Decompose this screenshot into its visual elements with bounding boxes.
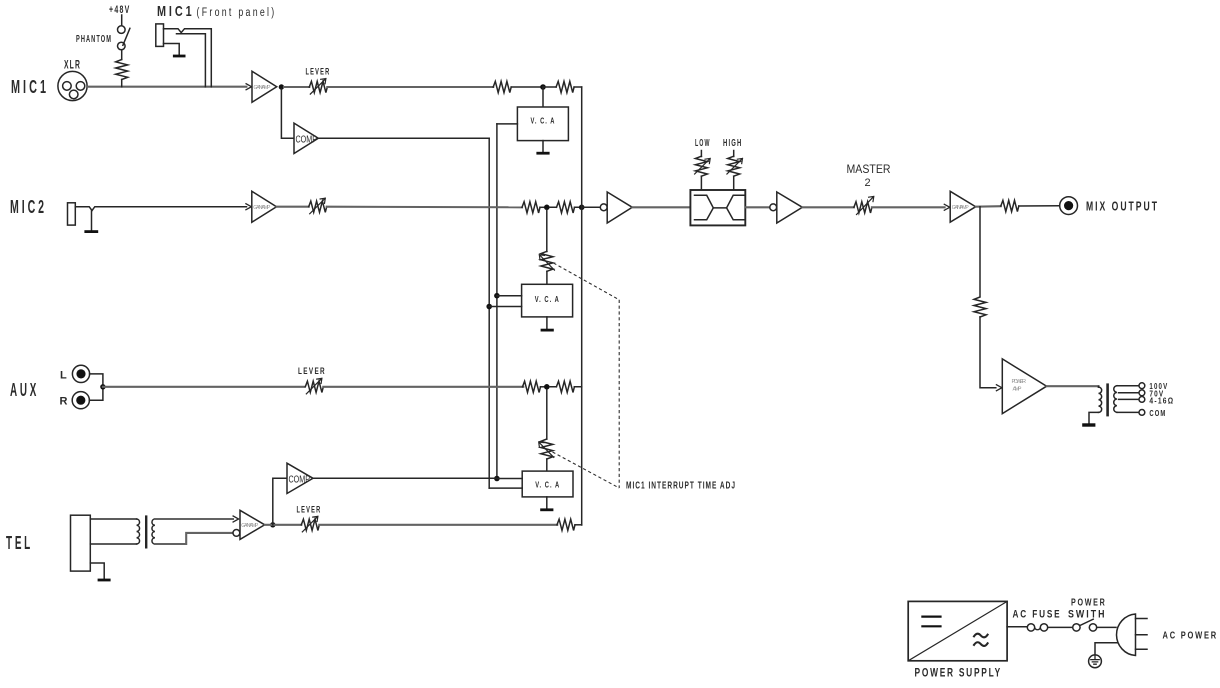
svg-text:COMP: COMP [296, 134, 318, 145]
svg-text:POWER: POWER [1012, 379, 1027, 385]
node MIC2 vca tap [544, 205, 550, 211]
ground earth circle [1089, 655, 1102, 668]
node AUX vca tap [544, 384, 550, 390]
dashed link pot AUX [553, 452, 620, 488]
svg-text:MIC1 INTERRUPT TIME ADJ: MIC1 INTERRUPT TIME ADJ [626, 480, 736, 491]
wire pot to R1 [323, 386, 523, 388]
wire R2 to bus [543, 86, 582, 88]
transformer T1 core [145, 517, 147, 548]
svg-text:AUX: AUX [10, 380, 39, 400]
wire bus to inverter [582, 206, 601, 208]
node MIC1 vca tap [540, 84, 546, 90]
wire node down to COMP1 [281, 89, 294, 138]
svg-text:LEVER: LEVER [306, 67, 331, 78]
node control A tap VCA2 [494, 293, 500, 299]
connector RCA R [72, 392, 89, 409]
tone control box [690, 190, 745, 225]
wire pot to R1 [327, 206, 522, 209]
wire buffer to master pot [802, 206, 853, 208]
amp GAIN/AMP U7 [944, 191, 975, 222]
resistor MIC2 sum R1 [522, 202, 540, 213]
ground VCA3 [540, 497, 553, 510]
wire RCA join [89, 374, 103, 400]
transformer T2 core [1106, 385, 1109, 415]
wire R2 to bus [550, 386, 582, 388]
svg-text:LOW: LOW [695, 138, 711, 149]
ground jack MIC1 [173, 55, 186, 58]
wire pot to R1 [327, 86, 493, 88]
wire VCA1 control input [497, 123, 518, 125]
summing bus vertical [581, 87, 583, 525]
wire control A to VCA2 [497, 295, 522, 297]
svg-text:V. C. A: V. C. A [535, 294, 560, 304]
resistor AUX sum R1 [523, 381, 541, 392]
connector RCA L [72, 365, 89, 382]
tap COM [1117, 409, 1167, 418]
wire node to pot [265, 524, 302, 526]
wire R1 to node [511, 86, 543, 88]
svg-text:LEVER: LEVER [298, 366, 326, 377]
svg-text:SWITH: SWITH [1068, 609, 1107, 621]
svg-text:COMP: COMP [289, 474, 311, 485]
wire TEL node up to COMP2 [273, 478, 287, 525]
wire TEL top [90, 518, 136, 520]
node mix branch [979, 207, 981, 296]
svg-text:V. C. A: V. C. A [531, 116, 556, 126]
potentiometer LEVER AUX [305, 378, 323, 394]
svg-text:LEVER: LEVER [297, 505, 322, 516]
resistor MIX out [1001, 200, 1019, 211]
wire control B to VCA2 [489, 306, 521, 308]
ground VCA1 [536, 141, 549, 154]
connector TEL [71, 515, 91, 571]
wire switch to plug [1097, 626, 1116, 628]
wire resistor to jack [1019, 205, 1060, 207]
svg-text:(Front panel): (Front panel) [197, 7, 277, 19]
wire R1 to node [541, 386, 547, 388]
resistor MIC2 sum R2 [557, 202, 575, 213]
wire switch to resistor [121, 50, 123, 60]
node AUX join [100, 384, 105, 389]
wire secondary bottom to amp [155, 533, 233, 544]
potentiometer LOW [695, 151, 711, 191]
svg-text:POWER SUPPLY: POWER SUPPLY [915, 666, 1003, 680]
svg-text:POWER: POWER [1071, 597, 1107, 609]
svg-text:TEL: TEL [6, 533, 33, 553]
resistor AUX sum R2 [556, 381, 574, 392]
resistor TEL sum [557, 519, 575, 530]
svg-text:2: 2 [865, 177, 871, 189]
potentiometer LEVER MIC1 [309, 79, 327, 95]
svg-text:GAIN/AMP: GAIN/AMP [253, 205, 271, 211]
svg-text:MASTER: MASTER [847, 164, 891, 176]
wire amp to pot [277, 206, 309, 208]
jack MIC2 [68, 203, 247, 230]
potentiometer AUX interrupt time [539, 439, 554, 459]
ground jack MIC2 [84, 230, 98, 233]
wire resistor to bus [575, 524, 582, 526]
comp COMP2 [287, 463, 313, 493]
comp COMP1 [294, 123, 318, 153]
svg-text:MIX OUTPUT: MIX OUTPUT [1086, 199, 1159, 214]
wire resistor to MIC1 line [121, 80, 123, 87]
ground TEL [90, 563, 110, 580]
dashed link pot MIC2 [554, 263, 620, 300]
transformer T1 primary [137, 519, 140, 544]
wire COMP2 out to control line A [313, 477, 497, 479]
wire COMP1 out to control line B [318, 137, 489, 139]
svg-text:COM: COM [1149, 409, 1166, 418]
wire R2 to bus [550, 206, 582, 208]
wire VCA1 feed [542, 87, 544, 107]
V.C.A box U2 [517, 107, 568, 141]
wire TEL bottom [90, 543, 136, 545]
wire master to amp [872, 206, 945, 208]
wire fuse to switch [1048, 626, 1073, 628]
svg-text:PHANTOM: PHANTOM [76, 33, 112, 45]
switch POWER [1073, 619, 1097, 631]
wire branch down to power amp [980, 317, 996, 388]
jack MIC1 front panel [156, 24, 212, 87]
node control A end VCA3 [494, 476, 500, 482]
node TEL amp out [270, 522, 275, 527]
svg-text:4-16Ω: 4-16Ω [1149, 396, 1174, 405]
svg-text:GAIN/AMP: GAIN/AMP [952, 205, 970, 211]
wire amp out to mix resistor [976, 205, 1001, 208]
wire plug earth [1095, 643, 1117, 655]
amp GAIN/AMP U3 [246, 191, 277, 222]
potentiometer MIC2 level [309, 198, 327, 214]
V.C.A box U9 [522, 471, 573, 497]
wire node to pot [284, 86, 309, 88]
amp POWER AMP U8 [996, 359, 1046, 414]
buffer U6 [770, 192, 803, 223]
svg-text:AMP: AMP [1013, 387, 1022, 393]
ground transformer [1082, 423, 1095, 426]
plug AC [1117, 614, 1147, 656]
wire tone out [745, 206, 770, 208]
V.C.A box U5 [522, 284, 573, 317]
svg-text:XLR: XLR [64, 58, 81, 72]
symbol AC [974, 634, 988, 646]
svg-text:MIC2: MIC2 [10, 197, 47, 217]
connector MIX OUTPUT [1060, 197, 1078, 215]
wire control B to VCA3 [489, 487, 522, 489]
resistor MIC1 sum R2 [556, 81, 574, 92]
wire control A to VCA3 [497, 478, 522, 480]
tap 70V [1119, 389, 1165, 398]
wire pot to resistor [319, 524, 557, 526]
transformer T2 primary [1089, 386, 1102, 423]
node summing bus [579, 205, 585, 211]
wire AUX vca feed [546, 390, 548, 439]
tap 100V [1117, 382, 1169, 391]
potentiometer MIC2 interrupt time [539, 251, 554, 271]
tap 4-16ohm [1119, 396, 1175, 405]
svg-text:MIC1: MIC1 [11, 77, 49, 97]
symbol DC [921, 617, 941, 627]
wire pot to VCA3 [546, 459, 548, 471]
potentiometer MASTER [854, 196, 874, 214]
svg-text:HIGH: HIGH [723, 138, 743, 149]
amp GAIN/AMP U10 [233, 510, 265, 539]
node MIC1 amp out [279, 84, 284, 89]
wire control line A vertical [496, 124, 498, 479]
summing inverter U4 [600, 192, 632, 223]
wire inverter out to tone [632, 206, 690, 208]
wire MIC1 main [87, 86, 246, 88]
svg-text:MIC1: MIC1 [157, 3, 195, 20]
wire R1 to node [540, 206, 547, 208]
wire MIC2 vca feed [546, 210, 548, 252]
wire power amp out [1047, 385, 1099, 387]
svg-text:V. C. A: V. C. A [535, 480, 560, 490]
svg-text:AC FUSE: AC FUSE [1013, 609, 1062, 621]
wire secondary top to amp [155, 518, 233, 520]
dashed link vertical [618, 300, 620, 488]
power supply box [908, 601, 1007, 660]
svg-text:AC POWER: AC POWER [1163, 630, 1219, 642]
svg-text:GAIN/AMP: GAIN/AMP [241, 523, 259, 529]
svg-text:R: R [60, 396, 68, 408]
wire AUX to pot [103, 386, 304, 388]
fuse AC [1027, 624, 1047, 631]
resistor power branch [974, 297, 986, 317]
resistor phantom [116, 60, 128, 80]
transformer T1 secondary [152, 519, 155, 544]
connector XLR MIC1 [58, 71, 87, 100]
wire +48V down [121, 15, 123, 26]
svg-text:GAIN/AMP: GAIN/AMP [254, 85, 272, 91]
potentiometer HIGH [727, 151, 743, 191]
wire pot to VCA2 [546, 271, 548, 284]
svg-text:+48V: +48V [109, 4, 131, 16]
transformer T2 secondary [1114, 386, 1117, 413]
node control B tap VCA2 [486, 304, 492, 310]
wire control line B vertical [488, 138, 490, 488]
amp GAIN/AMP U1 [246, 71, 277, 102]
potentiometer LEVER TEL [301, 516, 319, 532]
svg-text:L: L [60, 370, 67, 382]
resistor MIC1 sum R1 [493, 81, 511, 92]
switch PHANTOM [118, 26, 130, 50]
ground VCA2 [541, 317, 554, 330]
wire box to fuse [1007, 626, 1027, 628]
